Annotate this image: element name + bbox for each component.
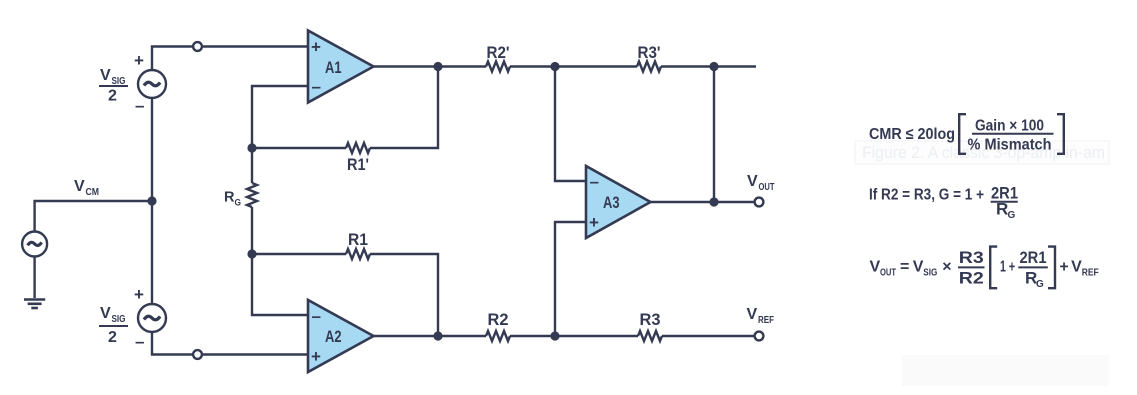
svg-text:G: G [235, 198, 242, 209]
svg-text:–: – [312, 307, 321, 326]
terminal VREF [755, 332, 764, 341]
resistor R2' [486, 62, 510, 72]
node A3 inverting rail junction [550, 62, 559, 71]
svg-text:+: + [311, 347, 321, 366]
resistor R3' [637, 62, 661, 72]
svg-text:–: – [135, 332, 144, 351]
faint caption watermark box [855, 141, 1109, 164]
node R2/R3 junction [550, 331, 559, 340]
wire A1 output node down to R1' [370, 67, 438, 149]
wire R3' node feedback down to A3 output [713, 67, 715, 203]
wire VCM source to ground [33, 257, 35, 299]
svg-text:–: – [312, 77, 321, 96]
svg-text:+: + [134, 285, 144, 304]
svg-text:V: V [1071, 259, 1082, 276]
svg-text:=: = [900, 259, 909, 276]
formula 2: gain equation [869, 183, 1018, 221]
node A2 output junction [433, 331, 442, 340]
svg-text:R2': R2' [487, 43, 510, 62]
wire R2'/R3' node to A3 inverting input [555, 67, 586, 182]
wire bottom source to A2 + input [152, 332, 308, 355]
svg-text:R1: R1 [348, 230, 368, 249]
voltage source V_CM [22, 232, 47, 257]
formula 3: VOUT equation [870, 248, 1099, 290]
resistor R1' [346, 143, 370, 153]
ground [24, 300, 45, 309]
node A1 output junction [433, 62, 442, 71]
svg-text:R: R [224, 189, 235, 206]
svg-text:+: + [1059, 259, 1068, 276]
input terminal bottom [193, 350, 202, 359]
node R3' feedback junction [709, 62, 718, 71]
label RG [224, 189, 241, 209]
node A3 output junction [709, 197, 718, 206]
resistor R3 [638, 331, 662, 341]
faint bottom-right watermark [902, 355, 1109, 386]
wire top source to VCM node [151, 98, 153, 201]
node RG top junction [247, 143, 256, 152]
svg-text:OUT: OUT [880, 268, 896, 279]
svg-text:2: 2 [108, 329, 117, 346]
wire VCM source to VCM node [35, 201, 152, 232]
wire R1' to RG top node [252, 147, 346, 149]
svg-text:2: 2 [108, 88, 117, 105]
svg-text:A3: A3 [603, 193, 620, 212]
svg-text:–: – [590, 172, 599, 191]
wire A3 output to VOUT [651, 201, 760, 203]
svg-text:OUT: OUT [759, 182, 775, 193]
svg-text:A1: A1 [325, 58, 342, 77]
svg-text:R2: R2 [488, 310, 509, 329]
svg-text:CMR ≤ 20log: CMR ≤ 20log [869, 126, 955, 143]
svg-text:–: – [135, 96, 144, 115]
svg-text:SIG: SIG [112, 314, 126, 325]
svg-text:G: G [1008, 210, 1016, 221]
op-amp A2 [308, 300, 374, 372]
op-amp A3 [586, 166, 651, 238]
resistor R2 [486, 331, 510, 341]
svg-text:R3': R3' [638, 43, 661, 62]
svg-text:REF: REF [1082, 268, 1099, 279]
wire A1 output rail [374, 65, 757, 67]
svg-text:Gain × 100: Gain × 100 [975, 117, 1044, 134]
terminal VOUT [755, 198, 764, 207]
svg-text:V: V [870, 259, 881, 276]
svg-text:+: + [589, 213, 599, 232]
svg-text:V: V [100, 305, 111, 322]
svg-text:+: + [311, 38, 321, 57]
svg-text:R3: R3 [959, 248, 984, 267]
svg-text:% Mismatch: % Mismatch [968, 137, 1052, 154]
voltage source VSIG/2 bottom [138, 304, 166, 332]
svg-text:R3: R3 [640, 310, 661, 329]
wire R2/R3 node to A3 non-inverting input [555, 222, 586, 336]
svg-text:1 +: 1 + [1000, 259, 1015, 276]
svg-text:V: V [747, 173, 758, 190]
svg-text:V: V [747, 306, 758, 323]
op-amp A1 [308, 31, 374, 103]
voltage source VSIG/2 top [138, 70, 166, 98]
label VCM [74, 178, 99, 198]
wire A2 output rail [374, 335, 760, 337]
wire RG branch vertical to A2 inverting input [252, 148, 308, 315]
svg-text:V: V [913, 259, 924, 276]
wire VCM node to bottom source [151, 201, 153, 304]
svg-text:×: × [942, 259, 951, 276]
resistor R1 [346, 249, 370, 259]
label VSIG/2 top [100, 67, 126, 105]
node VCM junction [147, 196, 156, 205]
wire A1 inverting input to RG top node [252, 86, 308, 148]
wire top source to A1 + input [152, 47, 308, 71]
wire R1 down to A2 output node [370, 254, 438, 336]
svg-text:CM: CM [86, 187, 100, 198]
svg-text:SIG: SIG [923, 268, 937, 279]
svg-text:A2: A2 [325, 327, 342, 346]
resistor RG [247, 183, 257, 207]
svg-text:G: G [1036, 279, 1044, 290]
svg-text:REF: REF [758, 315, 774, 326]
label VOUT [747, 173, 775, 193]
svg-text:+: + [134, 51, 144, 70]
svg-text:R1': R1' [347, 155, 369, 174]
svg-text:R2: R2 [959, 268, 984, 287]
svg-text:V: V [100, 67, 111, 84]
label VSIG/2 bottom [100, 305, 126, 346]
formula 1: CMR limit [869, 117, 1052, 153]
node RG bottom junction [247, 249, 256, 258]
label VREF [747, 306, 775, 326]
svg-text:V: V [74, 178, 85, 195]
input terminal top [193, 42, 202, 51]
svg-text:2R1: 2R1 [1020, 248, 1047, 267]
wire RG bottom node to R1 [252, 253, 346, 255]
svg-text:If R2 = R3, G = 1 +: If R2 = R3, G = 1 + [869, 186, 984, 203]
